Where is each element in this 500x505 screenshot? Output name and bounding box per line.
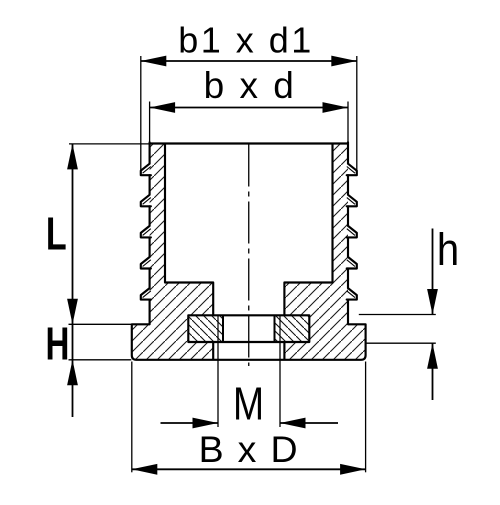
left rib chamfer thin edges	[143, 167, 151, 298]
M arrows	[193, 418, 219, 429]
b1 x d1 dim line	[141, 60, 357, 62]
svg-text:h: h	[437, 225, 459, 276]
hole below nut	[213, 342, 284, 360]
hatched section: right wall + flange right	[284, 144, 365, 360]
b1 x d1	[141, 56, 167, 67]
svg-text:b x d: b x d	[204, 65, 297, 106]
svg-text:B x D: B x D	[199, 428, 300, 470]
arrowheads	[67, 56, 438, 475]
h bottom extension	[366, 342, 436, 344]
left outer wall with ribs	[141, 142, 151, 324]
h arrows	[427, 289, 438, 315]
thread major diameter (thin)	[218, 315, 280, 342]
b x d dim line	[150, 107, 348, 109]
b x d	[150, 102, 176, 113]
b extension lines	[149, 102, 151, 143]
BxD dim line	[132, 468, 366, 470]
BxD extension lines	[131, 362, 133, 473]
BxD arrows	[132, 464, 158, 475]
H bottom extension	[69, 359, 132, 361]
svg-text:L: L	[46, 207, 67, 259]
L bottom / H top extension	[69, 323, 132, 325]
L top extension	[69, 143, 150, 145]
hatched section: left wall + flange left	[132, 144, 213, 360]
svg-text:M: M	[233, 378, 264, 430]
inner cavity walls	[165, 144, 213, 315]
thread minor diameter (thick)	[223, 315, 275, 342]
flange outline	[132, 324, 366, 360]
L dim line + H line	[72, 144, 74, 417]
h top extension	[359, 314, 436, 316]
H bottom arrow	[67, 360, 78, 386]
right rib chamfer thin edges	[347, 167, 355, 298]
nut hatched right	[275, 315, 310, 342]
h dim line upper & lower	[432, 229, 434, 401]
right outer wall with ribs	[347, 142, 357, 324]
svg-text:H: H	[46, 319, 70, 369]
svg-text:b1 x d1: b1 x d1	[178, 20, 314, 61]
centerline	[248, 145, 250, 367]
M dim lines	[161, 422, 339, 424]
nut hatched left	[188, 315, 223, 342]
L arrows	[67, 144, 78, 170]
M extension lines	[217, 342, 219, 427]
nut outline	[188, 315, 309, 342]
top surface	[150, 142, 348, 144]
b1 extension lines	[140, 56, 142, 171]
